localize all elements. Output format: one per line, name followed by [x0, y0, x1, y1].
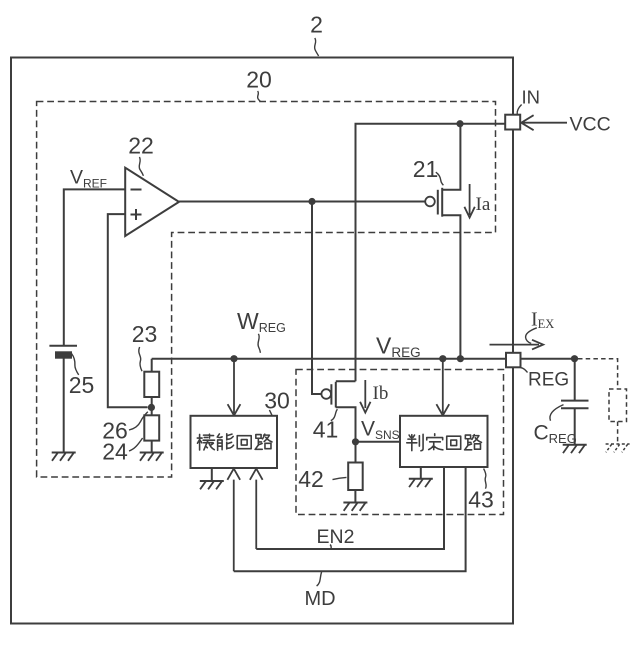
node Vsns junction — [352, 438, 359, 445]
op-amp plus sign — [131, 209, 142, 220]
transistor 21 drain lead down to Vreg wire — [442, 215, 460, 358]
node junction IN rail to 21 source — [456, 120, 463, 127]
transistor 41 drain lead down to Vsns — [336, 407, 356, 462]
label Iex leader — [526, 328, 537, 344]
label 2 leader — [315, 38, 319, 56]
ground under resistor 42 — [343, 503, 367, 511]
ground under Creg — [563, 445, 587, 453]
capacitor Creg top plate — [561, 400, 589, 402]
capacitor Creg bottom plate — [561, 407, 589, 409]
label 20 leader — [258, 91, 261, 101]
transistor 41 channel bar — [335, 382, 337, 408]
svg-text:Ib: Ib — [373, 383, 389, 404]
node divider midpoint — [148, 404, 155, 411]
node junction drain of 21 — [457, 355, 464, 362]
IN pad — [505, 115, 520, 130]
transistor 41 gate bar — [330, 384, 332, 404]
svg-text:41: 41 — [313, 417, 339, 443]
wire Vref battery to op-amp minus — [64, 189, 125, 345]
transistor 41 source lead (to IN rail) — [336, 380, 356, 382]
ground under battery — [52, 453, 76, 461]
transistor 21 gate bar — [437, 190, 439, 215]
label 22 leader — [139, 157, 143, 176]
wire resistor 24 to ground — [151, 441, 153, 453]
label 21 leader — [436, 172, 444, 185]
label Wreg leader — [258, 334, 260, 353]
label 43 leader — [484, 469, 487, 489]
svg-text:VCC: VCC — [570, 114, 611, 136]
op-amp minus sign — [131, 189, 142, 191]
VCC arrow — [521, 115, 567, 130]
wire gate tap down to transistor 41 bubble — [312, 202, 321, 395]
svg-text:CREG: CREG — [534, 422, 577, 447]
chip outline 2 — [11, 58, 513, 624]
transistor 21 source lead to IN wire — [442, 124, 460, 190]
arrow Vreg into judge circuit 43 — [436, 362, 449, 415]
transistor 21 channel bar — [441, 188, 443, 217]
transistor 21 gate bubble — [425, 197, 435, 207]
svg-text:Ia: Ia — [476, 194, 491, 215]
function circuit box 30 — [191, 416, 278, 468]
svg-text:2: 2 — [310, 12, 323, 38]
node external reg junction — [571, 355, 578, 362]
current Ia arrow — [464, 184, 474, 218]
wire VCC/IN rail down to transistor 41 source — [356, 124, 506, 381]
CJK glyph strokes — [197, 434, 481, 451]
main Vreg rail — [152, 359, 575, 372]
label 25 leader — [72, 354, 79, 375]
wire resistor 42 to ground — [354, 490, 356, 503]
text 機能回路 (function circuit) — [197, 434, 214, 450]
label 41 leader — [331, 409, 338, 420]
label 23 leader — [139, 347, 142, 371]
wire MD judge to function — [234, 467, 466, 571]
svg-text:23: 23 — [132, 321, 158, 347]
svg-text:20: 20 — [246, 67, 272, 93]
svg-text:IN: IN — [522, 87, 541, 108]
label IN leader — [517, 105, 521, 115]
dashed external load wire — [578, 359, 618, 389]
transistor 41 gate bubble — [321, 389, 331, 399]
wire Creg bottom — [574, 408, 576, 445]
svg-text:VREG: VREG — [376, 333, 421, 361]
battery 25 thick plate — [56, 352, 71, 357]
resistor 23 — [144, 372, 159, 397]
node junction to function-circuit arrow — [230, 355, 237, 362]
current Iex arrow — [490, 340, 544, 350]
label 30 leader — [269, 410, 272, 415]
label 42 leader — [333, 477, 347, 479]
arrow Vreg into function circuit 30 — [228, 362, 241, 415]
battery 25 stem wire — [63, 358, 65, 453]
svg-text:24: 24 — [102, 439, 128, 465]
svg-text:WREG: WREG — [237, 308, 286, 335]
wire EN2 judge to function — [256, 467, 444, 549]
wire op-amp output to gate of 21 — [179, 201, 425, 203]
wire Vsns to judge circuit — [356, 441, 401, 443]
svg-text:25: 25 — [69, 372, 95, 398]
svg-text:22: 22 — [128, 133, 154, 159]
dashed load wire to ground — [617, 422, 619, 445]
wire Creg top — [574, 359, 576, 401]
svg-text:30: 30 — [264, 388, 290, 414]
svg-text:IEX: IEX — [531, 309, 554, 332]
svg-text:VSNS: VSNS — [361, 418, 400, 443]
svg-text:VREF: VREF — [70, 167, 107, 191]
ground under resistor 24 — [140, 453, 164, 461]
resistor 42 — [348, 463, 363, 491]
node junction to judge-circuit arrow — [439, 355, 446, 362]
ground under function circuit — [200, 468, 224, 489]
svg-text:43: 43 — [468, 487, 494, 513]
svg-text:42: 42 — [298, 466, 324, 492]
wire between divider resistors — [151, 397, 153, 415]
op-amp 22 — [125, 168, 179, 236]
battery 25 top plate — [49, 345, 77, 347]
wire op-amp plus feedback to divider midpoint — [108, 214, 148, 407]
arrow EN2 into function circuit bottom — [250, 469, 263, 549]
current Ib arrow — [360, 380, 370, 413]
node junction on output (tap to 41 gate) — [308, 198, 315, 205]
label REG leader — [521, 368, 528, 373]
dashed ground under load — [606, 444, 630, 452]
svg-text:EN2: EN2 — [317, 526, 355, 548]
ground under judge circuit — [409, 467, 433, 487]
text 判定回路 (judge circuit) — [407, 434, 423, 450]
label 24 leader — [129, 438, 143, 451]
label Creg leader — [550, 405, 564, 421]
dashed load resistor — [609, 389, 627, 422]
label MD leader — [317, 572, 322, 586]
svg-text:REG: REG — [528, 370, 569, 391]
REG pad — [506, 353, 521, 368]
label 26 leader — [129, 412, 148, 430]
inner dashed box (41/42/43) — [296, 370, 504, 515]
resistor 24 — [144, 415, 159, 440]
svg-text:21: 21 — [413, 156, 439, 182]
judge circuit box 43 — [400, 416, 488, 467]
svg-text:MD: MD — [305, 588, 336, 610]
arrow MD into function circuit bottom — [227, 469, 240, 572]
label EN2 leader — [330, 545, 332, 550]
regulator block 20 dashed outline — [37, 102, 496, 478]
